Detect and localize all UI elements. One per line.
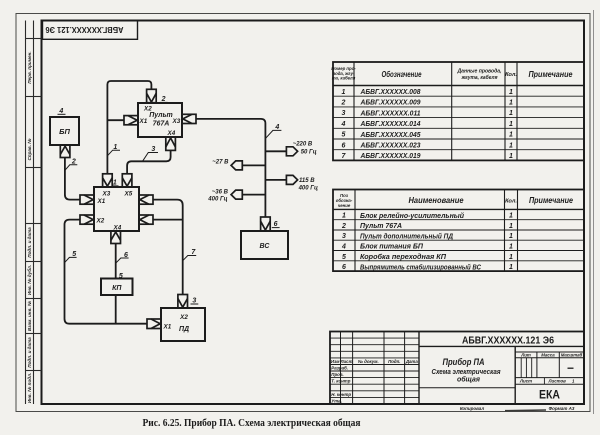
wire 5 (X2 of U1 to X1 of PD) (65, 220, 148, 324)
svg-text:3: 3 (342, 110, 346, 117)
svg-text:ВС: ВС (260, 243, 271, 250)
svg-text:2: 2 (341, 223, 346, 230)
wire 4 (X3 of Pult to VS bus) (196, 119, 265, 217)
block U1 relay-amplifier (item 1) (94, 187, 139, 231)
svg-text:767А: 767А (153, 121, 170, 128)
margin label Podp i data 1 (27, 227, 32, 258)
branch wire to -36V tap (242, 194, 265, 196)
wire 7 (right connectors of U1 to X2 of PD) (153, 200, 183, 295)
connector X1 of PD (left) (147, 319, 161, 329)
off-sheet arrow -36V (207, 190, 242, 203)
branch wire to 115V tap (265, 179, 286, 181)
svg-text:~27 В: ~27 В (212, 159, 229, 165)
svg-text:Разраб.: Разраб. (331, 366, 348, 371)
svg-text:Прибор ПА: Прибор ПА (443, 357, 485, 367)
svg-text:БП: БП (59, 127, 70, 136)
svg-text:4: 4 (274, 124, 279, 131)
block U2 Pult 767A (138, 103, 182, 137)
svg-text:Обозначение: Обозначение (382, 70, 422, 79)
mass dash (568, 367, 574, 369)
svg-text:общая: общая (457, 374, 481, 383)
margin label Inv No dubl (26, 265, 32, 295)
svg-text:Пульт 767А: Пульт 767А (360, 223, 402, 230)
svg-text:1: 1 (509, 254, 513, 261)
svg-text:АБВГ.ХХХХХХ.121 Э6: АБВГ.ХХХХХХ.121 Э6 (45, 25, 124, 34)
branch wire to 220V tap (265, 150, 286, 152)
svg-text:АБВГ.ХХХХХХ.023: АБВГ.ХХХХХХ.023 (360, 143, 421, 150)
wire label 1 (107, 144, 120, 156)
margin label Vzam inv No (27, 300, 32, 331)
svg-text:1: 1 (113, 144, 117, 151)
connector X4 of U1 (bottom) (111, 231, 121, 244)
svg-text:1: 1 (509, 121, 513, 128)
wire 3 (X4 of Pult to X5 of U1) (127, 150, 171, 173)
margin label Perv primen (27, 51, 32, 83)
connector X2 of U1 (left lower) (80, 215, 94, 224)
svg-text:1: 1 (509, 110, 513, 117)
top designation box rotated 180 (43, 21, 138, 40)
svg-text:чение: чение (338, 203, 351, 208)
svg-text:4: 4 (341, 121, 346, 128)
wire label 7 (183, 249, 197, 261)
wire label 4 (266, 124, 282, 138)
svg-text:Примечание: Примечание (529, 70, 573, 79)
svg-text:Лист: Лист (339, 359, 352, 364)
svg-text:Инв. № подл.: Инв. № подл. (27, 373, 32, 404)
title block left column texts (331, 359, 418, 404)
svg-text:6: 6 (124, 252, 128, 259)
connector X3 of U1 (top left) (103, 174, 113, 187)
svg-text:Х1: Х1 (163, 324, 172, 331)
margin label Sprav No (27, 138, 32, 161)
svg-text:ПД: ПД (179, 326, 189, 333)
footer small labels (460, 406, 575, 411)
svg-text:1: 1 (113, 179, 117, 186)
svg-text:1: 1 (509, 142, 513, 149)
svg-text:Коробка переходная КП: Коробка переходная КП (360, 253, 447, 261)
svg-text:5: 5 (72, 251, 76, 258)
svg-text:2: 2 (71, 159, 76, 166)
margin label Inv No podl (27, 373, 32, 404)
connector X4 of Pult (bottom) (166, 137, 176, 150)
wires table rows (341, 89, 514, 160)
svg-text:Т. контр: Т. контр (331, 379, 350, 384)
svg-text:6: 6 (342, 142, 346, 149)
title block grid (330, 332, 584, 405)
svg-text:Примечание: Примечание (529, 196, 573, 205)
svg-text:115 В: 115 В (299, 178, 315, 184)
svg-text:Дата: Дата (405, 359, 419, 364)
wire label 2 (65, 159, 77, 171)
branch wire to -27V tap (242, 164, 265, 166)
svg-text:~220 В: ~220 В (293, 142, 313, 148)
items table header texts (336, 193, 574, 208)
connector X2 of Pult (top) (147, 89, 157, 102)
svg-text:1: 1 (509, 153, 513, 160)
svg-text:Наименование: Наименование (409, 196, 465, 205)
svg-text:АБВГ.ХХХХХХ.011: АБВГ.ХХХХХХ.011 (360, 110, 421, 117)
connector X5 of U1 (top right) (122, 174, 132, 187)
svg-text:Масштаб: Масштаб (561, 352, 583, 357)
title block designation (462, 335, 554, 347)
title block EKA (539, 390, 560, 402)
svg-text:400 Гц: 400 Гц (207, 197, 227, 203)
connector right upper of U1 (139, 195, 153, 204)
svg-text:3: 3 (342, 233, 346, 240)
svg-text:Формат А3: Формат А3 (549, 406, 575, 411)
svg-text:Пульт: Пульт (149, 112, 173, 119)
svg-text:Х2: Х2 (96, 217, 105, 224)
off-sheet arrow -27V (212, 159, 242, 170)
svg-text:Взам. инв. №: Взам. инв. № (27, 300, 32, 331)
svg-text:Х1: Х1 (139, 118, 148, 125)
wire 1 (X2/X1 of Pult to X3 of U1) (107, 81, 151, 174)
title block small headers (519, 352, 583, 383)
wire label 3 (143, 146, 159, 161)
item label 5 (KP) (119, 273, 123, 280)
item label 4 (BP) (58, 108, 66, 115)
svg-text:та, кабеля: та, кабеля (332, 76, 356, 81)
off-sheet arrow 115V (286, 175, 318, 191)
scan artifact line (505, 409, 546, 412)
svg-text:Х3: Х3 (172, 118, 181, 125)
svg-text:1: 1 (342, 213, 346, 220)
svg-text:1: 1 (509, 132, 513, 139)
svg-text:1: 1 (509, 264, 513, 271)
svg-text:Х2: Х2 (143, 106, 152, 113)
svg-text:~36 В: ~36 В (212, 190, 229, 196)
svg-text:АБВГ.ХХХХХХ.019: АБВГ.ХХХХХХ.019 (360, 153, 421, 160)
svg-text:Лист: Лист (519, 379, 532, 384)
svg-text:Блок питания БП: Блок питания БП (360, 244, 424, 251)
svg-text:Х5: Х5 (124, 190, 133, 197)
connector X2 of PD (top) (178, 295, 188, 309)
caption (143, 418, 361, 429)
svg-text:АБВГ.ХХХХХХ.121 Э6: АБВГ.ХХХХХХ.121 Э6 (462, 335, 554, 347)
svg-text:4: 4 (341, 244, 346, 251)
svg-text:Кол.: Кол. (505, 199, 517, 205)
svg-text:Пульт дополнительный ПД: Пульт дополнительный ПД (360, 232, 453, 240)
drawing frame (42, 21, 585, 405)
svg-text:400 Гц: 400 Гц (298, 186, 318, 192)
svg-text:Выпрямитель стабилизированный: Выпрямитель стабилизированный ВС (360, 263, 482, 271)
svg-text:1: 1 (509, 244, 513, 251)
svg-text:1: 1 (509, 89, 513, 96)
items table grid (333, 190, 584, 272)
svg-text:АБВГ.ХХХХХХ.014: АБВГ.ХХХХХХ.014 (360, 121, 421, 128)
svg-text:3: 3 (151, 146, 155, 153)
svg-text:1: 1 (509, 213, 513, 220)
svg-text:КП: КП (112, 285, 122, 292)
svg-text:1: 1 (342, 89, 346, 96)
svg-text:50 Гц: 50 Гц (301, 149, 317, 155)
wires table header texts (331, 66, 573, 81)
svg-text:Подп. и дата: Подп. и дата (27, 227, 32, 258)
svg-text:Лит: Лит (520, 352, 531, 357)
svg-text:2: 2 (341, 100, 346, 107)
svg-text:Х3: Х3 (102, 190, 111, 197)
title block document name (432, 357, 502, 383)
wire label 6 (116, 252, 129, 263)
block BP (power supply, item 4) (50, 117, 79, 145)
connector X1 of Pult (left) (124, 116, 138, 125)
block KP (item 5) (101, 279, 133, 296)
block VS (item 6) (241, 231, 288, 259)
svg-text:Рис. 6.25. Прибор ПА. Схема эл: Рис. 6.25. Прибор ПА. Схема электрическа… (143, 418, 361, 429)
svg-text:Утв.: Утв. (331, 399, 342, 404)
svg-text:Изм: Изм (331, 359, 340, 364)
svg-text:Перв. примен.: Перв. примен. (27, 51, 32, 83)
item label 1 (U1) (112, 179, 119, 186)
svg-text:4: 4 (58, 108, 63, 115)
svg-text:Блок релейно-усилительный: Блок релейно-усилительный (360, 212, 465, 220)
svg-text:Подп.: Подп. (388, 359, 400, 364)
svg-text:АБВГ.ХХХХХХ.045: АБВГ.ХХХХХХ.045 (360, 132, 421, 139)
svg-text:Справ. №: Справ. № (27, 138, 32, 161)
svg-text:Листов: Листов (548, 379, 567, 384)
svg-text:Пров.: Пров. (331, 372, 343, 377)
svg-text:5: 5 (342, 254, 346, 261)
svg-text:жгута, кабеля: жгута, кабеля (461, 74, 498, 81)
svg-text:3: 3 (192, 298, 196, 305)
off-sheet arrow -220V (286, 142, 316, 156)
wire label 5 (65, 251, 77, 263)
svg-text:№ докум.: № докум. (358, 359, 379, 364)
svg-text:Подп. и дата: Подп. и дата (27, 337, 32, 368)
connector of VS (top) (261, 217, 271, 231)
left margin columns (26, 21, 42, 405)
wires table grid (333, 62, 584, 160)
item label 2 (Pult) (160, 96, 168, 103)
svg-text:АБВГ.ХХХХХХ.009: АБВГ.ХХХХХХ.009 (360, 100, 421, 107)
item label 6 (VS) (272, 221, 280, 228)
svg-text:Н. контр: Н. контр (331, 392, 351, 397)
svg-text:Х1: Х1 (97, 198, 106, 205)
svg-text:Масса: Масса (541, 352, 555, 357)
svg-text:Копировал: Копировал (460, 406, 485, 411)
svg-text:Инв. № дубл.: Инв. № дубл. (26, 265, 32, 295)
wire 2 (BP to X1 of U1) (65, 158, 80, 200)
svg-text:Кол.: Кол. (505, 72, 517, 78)
svg-text:Х2: Х2 (179, 314, 188, 321)
svg-text:1: 1 (509, 223, 513, 230)
connector X1 of U1 (left upper) (80, 195, 94, 204)
svg-text:АБВГ.ХХХХХХ.008: АБВГ.ХХХХХХ.008 (360, 89, 421, 96)
svg-text:6: 6 (342, 264, 346, 271)
svg-text:1: 1 (509, 100, 513, 107)
svg-text:Данные провода,: Данные провода, (457, 69, 502, 75)
items table rows (341, 212, 513, 271)
svg-text:5: 5 (342, 132, 346, 139)
svg-text:5: 5 (119, 273, 123, 280)
svg-text:1: 1 (509, 233, 513, 240)
item label 3 (PD) (191, 298, 199, 305)
connector under BP (60, 145, 70, 158)
svg-text:Х4: Х4 (167, 130, 176, 137)
wire 6 (X4 of U1 through KP to PD net) (115, 244, 117, 324)
svg-text:ЕКА: ЕКА (539, 390, 560, 402)
connector right lower of U1 (139, 215, 153, 224)
connector X3 of Pult (right) (182, 114, 196, 123)
margin label Podp i data 2 (27, 337, 32, 368)
block PD (item 3) (161, 308, 205, 341)
